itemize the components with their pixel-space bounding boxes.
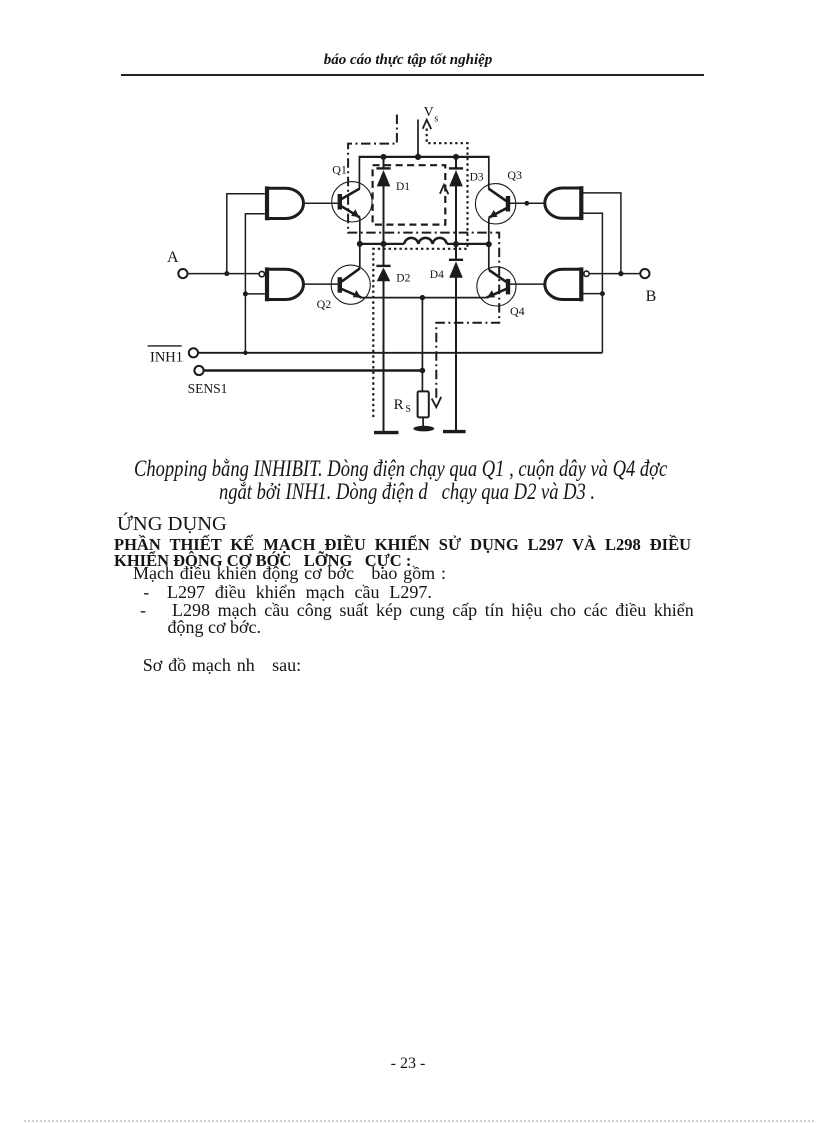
wire branch to gate G2 lower input [245, 293, 264, 295]
transistor Q2 [317, 265, 371, 311]
page header (running title) [0, 53, 816, 68]
wire G3 output to Q3 base [508, 202, 545, 204]
wire INH1 row [198, 352, 602, 354]
wire G2 output to Q2 base [304, 283, 338, 285]
svg-text:B: B [646, 288, 657, 305]
wire G4 inverting input to terminal B [589, 273, 640, 275]
svg-text:SENS1: SENS1 [188, 381, 228, 396]
AND gate G1 (top left) [267, 186, 304, 220]
wire mid node to Q4 collector [488, 244, 490, 270]
node SENS1-RS junction [420, 368, 426, 374]
wire Q3 emitter to mid node [488, 218, 490, 244]
list item 2 (justified, 2 lines) [140, 601, 146, 619]
wire right diode leg lower [455, 277, 457, 431]
wire emitter row down to RS [421, 298, 423, 392]
list item 1 [143, 583, 149, 601]
transistor Q4 [477, 267, 525, 318]
svg-text:S: S [405, 404, 411, 415]
svg-text:D1: D1 [396, 181, 410, 193]
terminal B [640, 269, 656, 305]
terminal SENS1 [188, 366, 228, 396]
current path dash-dot (Q1 load Q4 RS) [348, 115, 499, 400]
node D1-D2 junction [381, 241, 387, 247]
power Vs label [424, 105, 439, 125]
wire bus to Q3 collector [488, 156, 490, 189]
svg-text:Q1: Q1 [332, 163, 347, 177]
AND gate G2 (bottom left) with inverting input [259, 267, 303, 301]
body line [133, 564, 446, 582]
terminal INH1 [148, 346, 198, 365]
arrowhead dashed up [440, 185, 449, 194]
ground right [443, 430, 466, 433]
diode D2 [376, 266, 410, 285]
node on Q3 base wire [524, 201, 529, 206]
power Vs line [417, 120, 419, 157]
svg-text:Q4: Q4 [510, 304, 525, 318]
header rule [121, 74, 704, 76]
wire left diode leg middle [383, 186, 385, 266]
wire top supply bus [359, 156, 488, 158]
wire Q1 emitter to mid node [359, 217, 361, 244]
node bus-Vs junction [415, 154, 421, 160]
node D3-D4 junction [453, 241, 459, 247]
svg-text:V: V [424, 105, 434, 120]
svg-text:D4: D4 [430, 269, 444, 281]
wire emitter row Q2-Q4 [361, 297, 486, 299]
svg-text:R: R [394, 397, 404, 413]
wire RS to ground [422, 417, 424, 426]
wire right diode leg upper [455, 157, 457, 169]
bold paragraph line 1 (justified) [114, 537, 691, 554]
wire mid row right of coil [447, 243, 489, 245]
wire G1 lower input to INH1 vertical [245, 214, 264, 353]
wire G3 lower input down to INH1 row [581, 213, 602, 352]
decorative bottom dotted border [24, 1120, 816, 1122]
transistor Q1 [332, 163, 372, 223]
node Q3-Q4 junction [486, 241, 492, 247]
svg-text:INH1: INH1 [150, 349, 183, 365]
node INH1-left gates junction [243, 351, 247, 355]
current path dotted (D3 load return) [373, 129, 467, 420]
section heading [117, 514, 227, 535]
svg-text:s: s [434, 113, 438, 124]
svg-text:Q2: Q2 [317, 297, 332, 311]
diode D1 [376, 168, 410, 193]
wire mid node to Q2 collector [359, 244, 361, 269]
node G4 lower input junction [600, 291, 605, 296]
wire A up to gate G1 input [227, 194, 265, 274]
node bus-D1 junction [381, 154, 387, 160]
AND gate G4 (bottom right, mirrored) with inverting input [545, 267, 589, 301]
current path dashed (around D1) [373, 165, 446, 224]
caption line 1 [134, 458, 667, 482]
resistor RS [394, 391, 429, 417]
closing line [143, 656, 301, 674]
wire SENS1 row [204, 369, 423, 372]
caption line 2 [219, 481, 595, 505]
node emitter-RS junction [420, 295, 425, 300]
node B junction [618, 271, 623, 276]
wire G3 upper input to B node [581, 193, 621, 274]
page number [0, 1056, 816, 1072]
svg-text:D3: D3 [470, 171, 484, 183]
svg-text:Q3: Q3 [507, 168, 522, 182]
arrowhead dash-dot down [432, 397, 442, 407]
AND gate G3 (top right, mirrored) [545, 186, 582, 220]
terminal A [167, 249, 187, 278]
wire branch to G4 lower input [581, 293, 602, 295]
wire left diode leg lower [383, 281, 385, 433]
node Q1-Q2 junction [357, 241, 363, 247]
ground left [374, 431, 399, 434]
node INH1 branch left [243, 291, 248, 296]
svg-text:A: A [167, 249, 179, 266]
diode D4 [430, 260, 463, 281]
wire left diode leg upper [383, 157, 385, 169]
node A branch junction [224, 271, 229, 276]
svg-text:D2: D2 [396, 273, 410, 285]
inductor load coil [404, 238, 447, 244]
transistor Q3 [475, 168, 522, 224]
wire right diode leg middle [455, 186, 457, 260]
wire G1 output to Q1 base [304, 202, 338, 204]
node bus-D3 junction [453, 154, 459, 160]
wire input A row [188, 273, 259, 275]
wire bus to Q1 collector [358, 156, 360, 189]
diode D3 [449, 168, 484, 186]
bold paragraph line 2 [114, 553, 411, 570]
arrowhead dotted up [423, 120, 432, 129]
ground under RS [413, 426, 434, 432]
wire G4 output to Q4 base [508, 283, 545, 285]
wire mid row left of coil [360, 243, 404, 245]
